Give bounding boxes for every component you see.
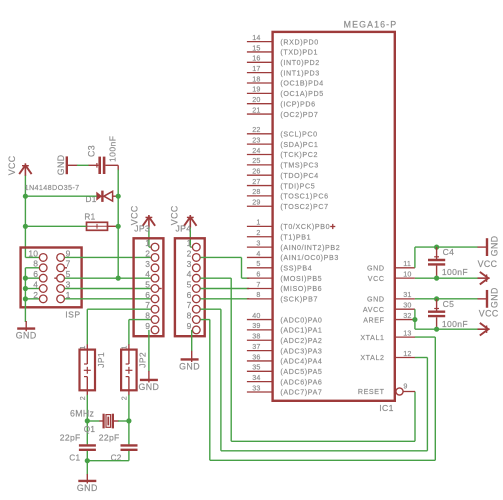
junction	[23, 276, 28, 281]
svg-text:JP2: JP2	[138, 352, 148, 368]
wire JP2 to crystal/C2	[128, 395, 130, 445]
junction	[23, 286, 28, 291]
IC U1 MEGA16-P body	[273, 32, 395, 401]
JP4 pin 3	[192, 264, 200, 272]
svg-text:(ADC4)PA4: (ADC4)PA4	[280, 358, 322, 366]
mark + near PB0	[330, 226, 335, 228]
IC1 pin 1 (T0/XCK)PB0	[247, 225, 273, 227]
IC1 pin 9 RESET (with bubble)	[396, 388, 403, 395]
svg-text:(INT0)PD2: (INT0)PD2	[280, 59, 319, 67]
IC1 pin 40 (ADC0)PA0	[247, 319, 273, 321]
ISP pin 5	[57, 274, 65, 282]
IC1 pin 32 AREF	[395, 319, 415, 321]
svg-text:40: 40	[252, 311, 260, 320]
svg-text:2: 2	[256, 228, 260, 237]
wire ISP pin1 to JP3 pin6 (MOSI)	[65, 298, 151, 300]
svg-text:(T1)PB1: (T1)PB1	[280, 233, 311, 241]
svg-text:5: 5	[187, 280, 192, 290]
svg-text:(OC1B)PD4: (OC1B)PD4	[280, 80, 323, 88]
IC1 pin 34 (ADC6)PA6	[247, 381, 273, 383]
svg-text:C3: C3	[87, 145, 97, 157]
IC1 pin 30 AVCC	[395, 308, 415, 310]
svg-text:1: 1	[187, 238, 192, 248]
wire JP4 pin4 to RESET (long route)	[201, 277, 232, 279]
svg-text:1N4148DO35-7: 1N4148DO35-7	[25, 183, 80, 192]
svg-text:(OC2)PD7: (OC2)PD7	[280, 111, 318, 119]
svg-text:12: 12	[403, 349, 411, 358]
IC1 pin 29 (TOSC2)PC7	[247, 205, 273, 207]
svg-text:(ADC6)PA6: (ADC6)PA6	[280, 378, 322, 386]
ISP pin 9	[57, 254, 65, 262]
svg-text:GND: GND	[77, 483, 98, 493]
svg-text:26: 26	[252, 167, 260, 176]
ISP pin 2	[39, 295, 47, 303]
wire JP4 pin5 to IC pin7 MISO	[201, 288, 250, 290]
IC1 pin 13 XTAL1	[395, 336, 415, 338]
svg-text:9: 9	[403, 382, 407, 391]
junction	[434, 276, 439, 281]
junction	[434, 245, 439, 250]
svg-text:4: 4	[187, 269, 192, 279]
svg-text:33: 33	[252, 383, 260, 392]
svg-text:(TOSC2)PC7: (TOSC2)PC7	[280, 203, 328, 211]
svg-text:15: 15	[252, 43, 260, 52]
svg-text:(TXD)PD1: (TXD)PD1	[280, 49, 318, 57]
jumper JP2	[128, 344, 130, 349]
wire IC pin30 AVCC down to VCC	[414, 309, 416, 329]
svg-text:4: 4	[256, 249, 260, 258]
svg-text:3: 3	[145, 259, 150, 269]
wire GND to C3	[77, 164, 89, 166]
svg-text:(ICP)PD6: (ICP)PD6	[280, 100, 315, 108]
junction	[85, 458, 90, 463]
svg-text:39: 39	[252, 321, 260, 330]
svg-text:(SDA)PC1: (SDA)PC1	[280, 141, 318, 149]
IC1 pin 20 (ICP)PD6	[247, 103, 273, 105]
IC1 pin 39 (ADC1)PA1	[247, 329, 273, 331]
wire JP3 pin9 to GND	[148, 330, 150, 372]
svg-text:20: 20	[252, 95, 260, 104]
JP4 pin 6	[192, 295, 200, 303]
IC1 pin 4 (AIN1/OC0)PB3	[247, 256, 273, 258]
svg-text:GND: GND	[138, 382, 159, 392]
svg-text:8: 8	[256, 290, 260, 299]
svg-text:100nF: 100nF	[442, 267, 468, 277]
JP4 pin 1	[192, 243, 200, 251]
svg-text:7: 7	[187, 300, 192, 310]
svg-text:GND: GND	[56, 154, 66, 175]
svg-text:35: 35	[252, 363, 260, 372]
ground GND (below JP3)	[148, 371, 150, 383]
IC1 pin 14 (RXD)PD0	[247, 41, 273, 43]
svg-text:AVCC: AVCC	[363, 306, 385, 314]
IC1 pin 37 (ADC3)PA3	[247, 350, 273, 352]
IC1 pin 18 (OC1B)PD4	[247, 82, 273, 84]
svg-text:22pF: 22pF	[99, 432, 120, 442]
wire C2 bottom joins C1	[128, 451, 130, 461]
wire VCC to JP4 pin1	[189, 228, 191, 248]
svg-text:22: 22	[252, 125, 260, 134]
svg-text:24: 24	[252, 146, 260, 155]
svg-text:19: 19	[252, 85, 260, 94]
svg-text:6: 6	[256, 269, 260, 278]
svg-text:8: 8	[187, 311, 192, 321]
IC1 pin 15 (TXD)PD1	[247, 51, 273, 53]
svg-text:ISP: ISP	[65, 310, 80, 320]
wire JP4 pin2 to IC pin6 MOSI	[201, 256, 242, 258]
IC1 pin 12 XTAL2	[395, 357, 415, 359]
svg-text:2: 2	[120, 396, 129, 400]
svg-text:IC1: IC1	[379, 403, 394, 413]
wire JP1 pin1 to JP3 pin7	[87, 308, 151, 310]
JP4 pin 4	[192, 274, 200, 282]
ISP pin 5 lead tick	[54, 277, 56, 279]
wire IC pin10 VCC right	[415, 277, 478, 279]
IC1 pin 24 (TCK)PC2	[247, 154, 273, 156]
ISP pin 3	[57, 285, 65, 293]
svg-text:(TDO)PC4: (TDO)PC4	[280, 172, 318, 180]
svg-text:2: 2	[78, 396, 87, 400]
svg-text:GND: GND	[16, 331, 37, 341]
svg-text:31: 31	[403, 290, 411, 299]
IC1 pin 19 (OC1A)PD5	[247, 92, 273, 94]
svg-text:4: 4	[145, 269, 150, 279]
svg-text:37: 37	[252, 342, 260, 351]
svg-text:25: 25	[252, 156, 260, 165]
jumper JP1	[86, 344, 88, 349]
svg-text:(SCK)PB7: (SCK)PB7	[280, 296, 318, 304]
wire ISP pin3 to JP3 pin5	[65, 288, 151, 290]
svg-text:Q1: Q1	[84, 425, 96, 434]
IC1 pin 25 (TMS)PC3	[247, 164, 273, 166]
connector ISP (2x5 header)	[21, 248, 82, 308]
JP3 pin 7	[151, 305, 159, 313]
JP4 pin 9	[192, 326, 200, 334]
svg-text:11: 11	[403, 259, 411, 268]
wire RESET net vertical (C3 to reset row)	[117, 165, 119, 170]
svg-text:XTAL2: XTAL2	[360, 354, 384, 362]
svg-text:(TDI)PC5: (TDI)PC5	[280, 182, 315, 190]
svg-text:(INT1)PD3: (INT1)PD3	[280, 69, 319, 77]
svg-text:(AIN0/INT2)PB2: (AIN0/INT2)PB2	[280, 244, 340, 252]
svg-text:9: 9	[145, 321, 150, 331]
svg-text:GND: GND	[367, 296, 385, 304]
svg-text:R1: R1	[84, 213, 95, 222]
wire JP4 pin6 to IC pin8 SCK	[201, 298, 250, 300]
ground GND (top right)	[478, 246, 488, 248]
svg-text:(MISO)PB6: (MISO)PB6	[280, 285, 322, 293]
svg-text:JP3: JP3	[134, 224, 150, 234]
wire IC pin11 GND up and right	[414, 247, 416, 268]
JP3 pin 5	[151, 285, 159, 293]
IC1 pin 36 (ADC4)PA4	[247, 360, 273, 362]
JP3 pin 1	[151, 243, 159, 251]
wire ISP pin9 to JP3 pin2 (MISO)	[65, 256, 151, 258]
svg-text:10: 10	[403, 269, 411, 278]
svg-text:(ADC3)PA3: (ADC3)PA3	[280, 347, 322, 355]
ground GND (right, pin31)	[478, 298, 488, 300]
JP4 pin 7	[192, 305, 200, 313]
svg-text:6: 6	[187, 290, 192, 300]
IC1 pin 3 (AIN0/INT2)PB2	[247, 246, 273, 248]
ground GND (below C1/C2)	[86, 474, 88, 484]
JP3 pin 3	[151, 264, 159, 272]
ISP pin 7	[57, 264, 65, 272]
svg-text:(MOSI)PB5: (MOSI)PB5	[280, 275, 322, 283]
svg-text:6: 6	[145, 290, 150, 300]
svg-text:1: 1	[256, 218, 260, 227]
wire IC pin31 GND right	[415, 298, 478, 300]
wire VCC to JP3 pin1	[148, 228, 150, 248]
ISP pin 8	[39, 264, 47, 272]
junction	[434, 296, 439, 301]
JP4 pin 5	[192, 285, 200, 293]
junction	[85, 418, 90, 423]
svg-text:22pF: 22pF	[60, 432, 81, 442]
svg-text:(ADC1)PA1: (ADC1)PA1	[280, 327, 322, 335]
svg-text:(SCL)PC0: (SCL)PC0	[280, 131, 317, 139]
IC1 pin 11 GND	[395, 267, 415, 269]
IC1 pin 17 (INT1)PD3	[247, 72, 273, 74]
svg-text:GND: GND	[489, 235, 499, 256]
svg-text:27: 27	[252, 177, 260, 186]
JP3 pin5 lead tick	[159, 288, 162, 290]
svg-text:17: 17	[252, 64, 260, 73]
svg-text:(TCK)PC2: (TCK)PC2	[280, 151, 318, 159]
svg-text:(ADC2)PA2: (ADC2)PA2	[280, 337, 322, 345]
IC1 pin 26 (TDO)PC4	[247, 174, 273, 176]
JP4 pin 2	[192, 254, 200, 262]
svg-text:32: 32	[403, 311, 411, 320]
junction	[23, 194, 28, 199]
svg-text:C1: C1	[69, 453, 80, 462]
svg-text:29: 29	[252, 198, 260, 207]
svg-text:2: 2	[187, 248, 192, 258]
svg-text:36: 36	[252, 352, 260, 361]
svg-text:AREF: AREF	[363, 316, 384, 324]
svg-text:5: 5	[256, 259, 260, 268]
svg-text:GND: GND	[367, 265, 385, 273]
svg-text:(TMS)PC3: (TMS)PC3	[280, 162, 318, 170]
svg-text:(SS)PB4: (SS)PB4	[280, 265, 312, 273]
svg-text:JP4: JP4	[176, 224, 192, 234]
junction	[23, 296, 28, 301]
wire C1 bottom to GND	[86, 451, 88, 475]
wire JP1 to crystal/C1	[86, 395, 88, 445]
IC1 pin 38 (ADC2)PA2	[247, 339, 273, 341]
svg-text:18: 18	[252, 74, 260, 83]
IC1 pin 22 (SCL)PC0	[247, 133, 273, 135]
svg-text:(OC1A)PD5: (OC1A)PD5	[280, 90, 323, 98]
ISP pin 10	[39, 254, 47, 262]
capacitor C3 100nF	[89, 164, 99, 166]
svg-text:XTAL1: XTAL1	[360, 334, 384, 342]
svg-text:9: 9	[187, 321, 192, 331]
IC1 pin 7 (MISO)PB6	[247, 288, 273, 290]
junction	[126, 418, 131, 423]
wire ISP pin5 to JP3 pin4 (RESET)	[65, 277, 151, 279]
IC1 pin 27 (TDI)PC5	[247, 185, 273, 187]
JP4 pin 8	[192, 316, 200, 324]
svg-text:16: 16	[252, 54, 260, 63]
svg-text:VCC: VCC	[479, 309, 499, 319]
IC1 pin 16 (INT0)PD2	[247, 61, 273, 63]
svg-text:(ADC5)PA5: (ADC5)PA5	[280, 368, 322, 376]
svg-text:5: 5	[145, 280, 150, 290]
junction	[116, 276, 121, 281]
svg-text:C5: C5	[443, 299, 455, 309]
JP3 pin 6	[151, 295, 159, 303]
svg-text:VCC: VCC	[130, 205, 140, 225]
junction	[23, 224, 28, 229]
svg-text:6MHz: 6MHz	[70, 409, 94, 419]
svg-text:1: 1	[145, 238, 150, 248]
svg-text:2: 2	[145, 248, 150, 258]
svg-text:7: 7	[256, 280, 260, 289]
svg-text:100nF: 100nF	[108, 136, 118, 162]
svg-text:(AIN1/OC0)PB3: (AIN1/OC0)PB3	[280, 254, 339, 262]
wire JP4 pin7 to XTAL2 (long route)	[201, 308, 221, 310]
junction	[434, 327, 439, 332]
svg-text:RESET: RESET	[358, 388, 385, 396]
svg-text:C4: C4	[443, 247, 455, 257]
IC1 pin 5 (SS)PB4	[247, 267, 273, 269]
svg-text:34: 34	[252, 373, 260, 382]
svg-text:(RXD)PD0: (RXD)PD0	[280, 38, 318, 46]
wire VCC to R1	[25, 225, 86, 227]
svg-text:VCC: VCC	[478, 259, 498, 269]
wire VCC to D1 anode	[25, 195, 96, 197]
ground GND (below ISP)	[25, 321, 27, 331]
JP3 pin 9	[151, 326, 159, 334]
junction pin32 AREF	[412, 317, 417, 322]
svg-text:VCC: VCC	[368, 275, 385, 283]
svg-text:3: 3	[256, 238, 260, 247]
ISP pin 4	[39, 285, 47, 293]
svg-text:100nF: 100nF	[442, 319, 468, 329]
IC1 pin 21 (OC2)PD7	[247, 113, 273, 115]
svg-text:MEGA16-P: MEGA16-P	[344, 20, 398, 30]
JP3 pin 4	[151, 274, 159, 282]
svg-text:38: 38	[252, 332, 260, 341]
junction	[116, 224, 121, 229]
svg-text:VCC: VCC	[170, 205, 180, 225]
svg-text:GND: GND	[489, 287, 499, 308]
svg-text:30: 30	[403, 301, 411, 310]
ground GND (below JP4)	[191, 351, 193, 362]
IC1 pin 28 (TOSC1)PC6	[247, 195, 273, 197]
svg-text:(ADC7)PA7: (ADC7)PA7	[280, 389, 322, 397]
junction	[116, 194, 121, 199]
wire JP4 pin9 to GND	[191, 330, 193, 351]
IC1 pin 6 (MOSI)PB5	[247, 277, 273, 279]
JP3 pin 2	[151, 254, 159, 262]
svg-text:JP1: JP1	[96, 352, 106, 368]
IC1 pin 33 (ADC7)PA7	[247, 391, 273, 393]
svg-text:23: 23	[252, 135, 260, 144]
IC1 pin 31 GND	[395, 298, 415, 300]
svg-text:28: 28	[252, 187, 260, 196]
svg-text:14: 14	[252, 33, 260, 42]
wire JP4 pin8 to XTAL1 (long route)	[201, 319, 210, 321]
svg-text:10: 10	[28, 248, 38, 258]
svg-text:GND: GND	[179, 361, 200, 371]
ISP pin 7 lead tick	[65, 267, 67, 269]
svg-text:(ADC0)PA0: (ADC0)PA0	[280, 316, 322, 324]
svg-text:3: 3	[187, 259, 192, 269]
svg-text:13: 13	[403, 328, 411, 337]
ISP pin 1	[57, 295, 65, 303]
IC1 pin 8 (SCK)PB7	[247, 298, 273, 300]
svg-text:21: 21	[252, 105, 260, 114]
svg-text:VCC: VCC	[7, 155, 17, 175]
wire JP2 pin1 to JP3 pin8	[129, 319, 151, 321]
JP3 pin 8	[151, 316, 159, 324]
IC1 pin 2 (T1)PB1	[247, 236, 273, 238]
svg-text:(TOSC1)PC6: (TOSC1)PC6	[280, 193, 328, 201]
IC1 pin 35 (ADC5)PA5	[247, 370, 273, 372]
IC1 pin 10 VCC	[395, 277, 415, 279]
ground GND (top, near C3)	[66, 156, 68, 174]
wire GND net in ISP (pins 8,6,4,2)	[25, 267, 39, 269]
wire VCC vertical to ISP pin 10	[24, 176, 26, 258]
ISP pin 6	[39, 274, 47, 282]
IC1 pin 23 (SDA)PC1	[247, 143, 273, 145]
svg-text:(T0/XCK)PB0: (T0/XCK)PB0	[280, 223, 330, 231]
